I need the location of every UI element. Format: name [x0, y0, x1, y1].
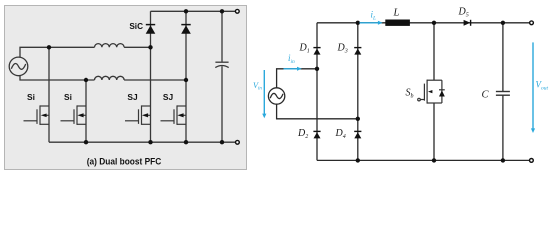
wire switch leg upper	[433, 23, 435, 80]
svg-text:SJ: SJ	[163, 92, 174, 102]
arrow Vin	[262, 70, 266, 118]
wire AC top lead to node A	[20, 47, 95, 57]
svg-text:SJ: SJ	[127, 92, 138, 102]
inductor L boost	[385, 20, 410, 26]
wire bottom rail	[49, 141, 235, 143]
terminal output minus	[236, 140, 240, 144]
wire capacitor C leg	[502, 23, 504, 161]
junction AC top / left leg	[315, 67, 319, 71]
capacitor C right	[496, 92, 510, 96]
wire leg of Q4 and diode D2	[185, 11, 187, 142]
junction wire1 / D-SiC leg	[148, 45, 152, 49]
junction node B on wire2	[84, 78, 88, 82]
transistor Q2 (Si)	[61, 105, 87, 125]
wire bridge left leg	[316, 23, 318, 161]
capacitor Cout left circuit	[215, 11, 228, 142]
junction top rail / switch	[432, 21, 436, 25]
wire leg of Q2	[85, 80, 87, 142]
junction bottom rail / right leg	[356, 158, 360, 162]
diode D3	[354, 48, 361, 55]
svg-text:L: L	[393, 8, 400, 19]
wire bottom rail	[317, 159, 529, 161]
arrow i_L	[360, 21, 383, 25]
diode D (second boost diode)	[181, 25, 191, 34]
diode D1	[313, 48, 320, 55]
svg-text:Si: Si	[64, 92, 72, 102]
terminal output plus	[235, 9, 239, 13]
junction node A on wire1	[47, 45, 51, 49]
junction wire2 / D2 leg	[184, 78, 188, 82]
diode D-SiC	[146, 25, 156, 34]
svg-text:C: C	[482, 90, 490, 101]
junction bottom rail Cout	[220, 140, 224, 144]
junction AC bottom / right leg	[356, 117, 360, 121]
wire L1 to node D1sic	[124, 46, 150, 48]
transistor Sb switch with body diode	[418, 80, 445, 104]
transistor Q4 (SJ)	[161, 105, 187, 125]
panel (a) background	[5, 6, 247, 170]
wire AC bottom lead	[277, 104, 358, 119]
wire AC top lead	[277, 69, 317, 88]
transistor Q3 (SJ)	[125, 105, 151, 125]
terminal Vout minus	[530, 159, 534, 163]
junction bottom rail / C	[501, 158, 505, 162]
wire AC bottom lead to node B	[20, 75, 95, 80]
junction bottom rail / switch	[432, 158, 436, 162]
svg-text:SiC: SiC	[129, 22, 143, 31]
AC source Vac left	[9, 57, 28, 76]
junction bottom rail Q3	[148, 140, 152, 144]
svg-text:Si: Si	[27, 92, 35, 102]
wire leg of Q1	[48, 47, 50, 142]
junction top rail / Cout	[220, 9, 224, 13]
wire switch leg lower	[433, 103, 435, 160]
wire L2 to node of D2 leg	[124, 79, 186, 81]
wire top rail	[317, 22, 529, 24]
junction top rail / D2	[184, 9, 188, 13]
wire bridge right leg	[357, 23, 359, 161]
AC source vin right	[268, 88, 284, 104]
arrow i_in	[284, 67, 302, 71]
terminal Vout plus	[530, 21, 534, 25]
arrow Vout	[531, 42, 535, 133]
inductor L2	[95, 76, 125, 80]
transistor Q1 (Si)	[24, 105, 50, 125]
diode D4	[354, 131, 361, 138]
junction bottom rail Q2	[84, 140, 88, 144]
junction top rail / C	[501, 21, 505, 25]
junction bottom rail Q4	[184, 140, 188, 144]
inductor L1	[95, 44, 125, 48]
wire leg of Q3 and diode D-SiC	[150, 11, 152, 142]
diode D2	[313, 131, 320, 138]
junction top rail / right leg	[356, 21, 360, 25]
svg-text:(a) Dual boost PFC: (a) Dual boost PFC	[87, 157, 162, 168]
wire top rail	[151, 10, 236, 12]
diode D5 boost	[464, 20, 471, 26]
